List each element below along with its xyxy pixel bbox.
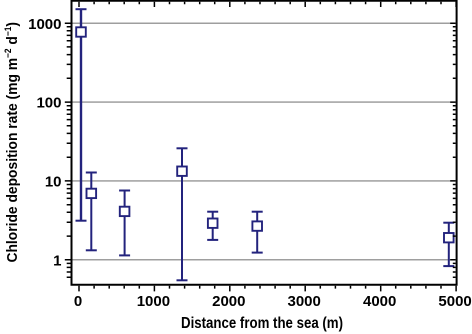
data point P1: error bar + open square marker [76, 9, 87, 221]
svg-text:1000: 1000 [137, 293, 170, 310]
svg-text:0: 0 [74, 293, 82, 310]
data point P4: error bar + open square marker [177, 148, 188, 280]
data point P2: error bar + open square marker [86, 173, 97, 251]
svg-text:Distance from the sea (m): Distance from the sea (m) [181, 315, 343, 332]
svg-text:5000: 5000 [438, 293, 471, 310]
data point P3: error bar + open square marker [119, 191, 130, 256]
svg-text:Chloride deposition rate (mg m: Chloride deposition rate (mg m−2 d−1) [3, 22, 21, 263]
data point P7: error bar + open square marker [443, 223, 454, 266]
y-axis right ticks (mirrored, pointing inward) [450, 23, 455, 277]
gridline y=1 [73, 259, 456, 261]
gridline y=100 [73, 101, 456, 103]
svg-text:1000: 1000 [28, 16, 61, 33]
x-axis bottom ticks (major 0..5000, minor every 200) [79, 286, 456, 292]
svg-text:3000: 3000 [288, 293, 321, 310]
data point P6: error bar + open square marker [252, 212, 263, 253]
data point P5: error bar + open square marker [207, 212, 218, 240]
svg-text:1: 1 [53, 252, 61, 269]
svg-text:10: 10 [45, 174, 62, 191]
plot frame (axes box) [72, 1, 457, 285]
x-axis top ticks (mirrored, pointing inward) [79, 2, 456, 7]
svg-text:2000: 2000 [212, 293, 245, 310]
gridline y=10 [73, 180, 456, 182]
svg-text:100: 100 [36, 95, 61, 112]
svg-text:4000: 4000 [363, 293, 396, 310]
y-axis left ticks (major decades, minor log) [65, 23, 71, 277]
gridline y=1000 [73, 22, 456, 24]
x tick labels 0..5000 [74, 293, 472, 310]
y tick labels 1,10,100,1000 [28, 16, 61, 270]
